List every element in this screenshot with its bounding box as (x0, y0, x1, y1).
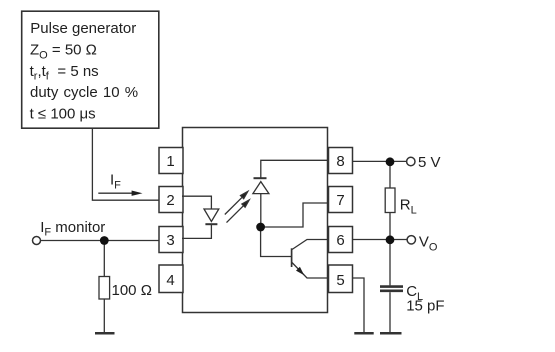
svg-text:5 V: 5 V (418, 154, 441, 171)
svg-text:IF monitor: IF monitor (40, 219, 105, 239)
svg-text:15 pF: 15 pF (406, 298, 444, 315)
svg-text:RL: RL (400, 197, 417, 217)
svg-text:IF: IF (110, 171, 121, 191)
svg-text:5: 5 (336, 272, 344, 289)
svg-text:6: 6 (336, 232, 344, 249)
svg-text:duty cycle 10 %: duty cycle 10 % (30, 84, 138, 101)
svg-text:4: 4 (166, 272, 174, 289)
svg-text:1: 1 (166, 153, 174, 170)
svg-text:7: 7 (336, 192, 344, 209)
svg-text:VO: VO (419, 234, 438, 254)
svg-text:100 Ω: 100 Ω (112, 282, 152, 299)
svg-text:t ≤ 100 μs: t ≤ 100 μs (30, 106, 96, 123)
svg-text:ZO = 50 Ω: ZO = 50 Ω (30, 42, 97, 62)
svg-text:2: 2 (166, 192, 174, 209)
svg-text:8: 8 (336, 153, 344, 170)
svg-text:tr,tf= 5 ns: tr,tf= 5 ns (30, 63, 99, 83)
svg-text:Pulse generator: Pulse generator (30, 20, 136, 37)
svg-text:3: 3 (166, 232, 174, 249)
